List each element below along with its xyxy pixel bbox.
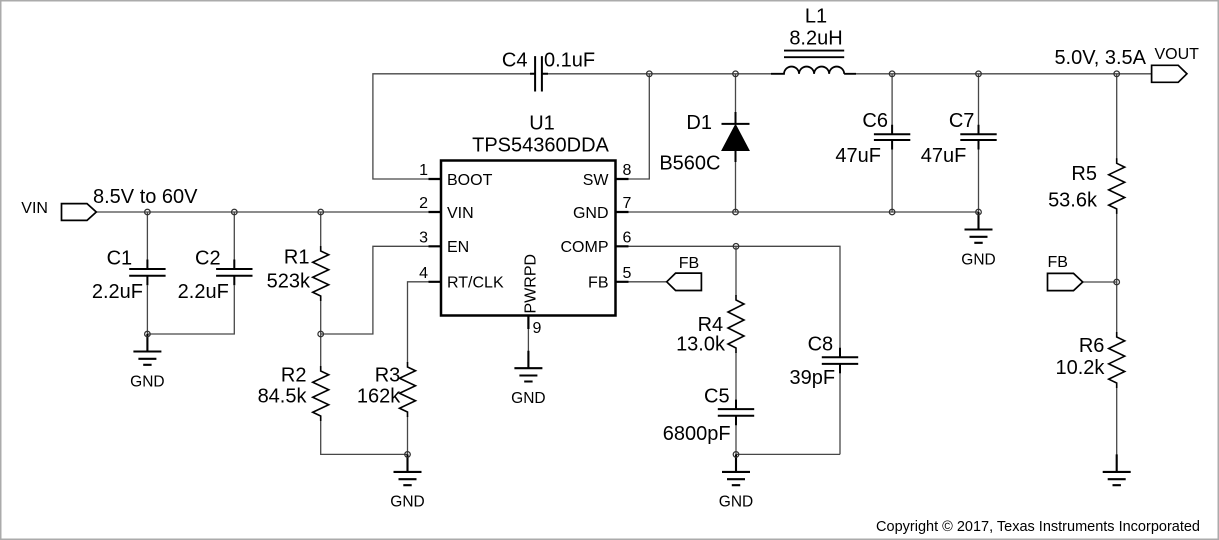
svg-text:53.6k: 53.6k xyxy=(1048,190,1098,212)
wire PWRPD pin9 to ground xyxy=(527,316,529,352)
svg-text:GND: GND xyxy=(573,205,609,222)
svg-text:TPS54360DDA: TPS54360DDA xyxy=(472,135,609,157)
svg-text:R1: R1 xyxy=(284,246,310,268)
svg-text:84.5k: 84.5k xyxy=(258,385,308,407)
D1 value label xyxy=(659,153,720,175)
svg-text:SW: SW xyxy=(583,172,610,189)
ground at R6 xyxy=(1103,454,1131,485)
node R1-R2-EN xyxy=(318,331,324,337)
R6 reference label xyxy=(1079,335,1105,357)
R2 value label xyxy=(258,385,308,407)
svg-text:3: 3 xyxy=(419,229,428,246)
VIN net label xyxy=(21,200,48,217)
wire R6 branch to ground xyxy=(1116,282,1118,455)
svg-text:FB: FB xyxy=(679,255,699,272)
node VIN-C1 xyxy=(145,209,151,215)
svg-text:C6: C6 xyxy=(862,110,888,132)
R2 reference label xyxy=(281,365,307,387)
svg-text:VIN: VIN xyxy=(447,205,474,222)
C7 reference label xyxy=(949,110,975,132)
C6 value label xyxy=(835,145,881,167)
R5 reference label xyxy=(1071,163,1097,185)
resistor R6 xyxy=(1109,332,1125,388)
svg-text:8.5V to 60V: 8.5V to 60V xyxy=(93,186,198,208)
node rail-C6 xyxy=(889,71,895,77)
svg-text:7: 7 xyxy=(623,195,632,212)
C1 reference label xyxy=(107,247,133,269)
C4 reference label xyxy=(502,50,528,72)
diode D1 xyxy=(722,112,750,162)
wire C1 branch xyxy=(146,212,148,334)
resistor R2 xyxy=(313,366,329,421)
resistor R3 xyxy=(400,362,416,417)
wire C6 branch xyxy=(891,74,893,212)
wire RT/CLK to R3 xyxy=(408,282,442,455)
svg-text:8.2uH: 8.2uH xyxy=(789,28,842,50)
wire VIN rail xyxy=(96,211,441,213)
copyright notice xyxy=(876,519,1200,535)
svg-text:BOOT: BOOT xyxy=(447,172,493,189)
capacitor C1 xyxy=(129,260,165,286)
wire SW stub up xyxy=(616,74,650,179)
op-amp U1 TPS54360DDA box xyxy=(429,161,629,330)
svg-text:PWRPD: PWRPD xyxy=(523,254,540,314)
ground at C1/C2 xyxy=(130,334,164,390)
svg-text:VIN: VIN xyxy=(21,200,48,217)
R4 value label xyxy=(676,334,726,356)
wire R1 branch xyxy=(320,212,322,334)
svg-text:R6: R6 xyxy=(1079,335,1105,357)
svg-text:6800pF: 6800pF xyxy=(663,423,731,445)
svg-text:RT/CLK: RT/CLK xyxy=(447,275,504,292)
svg-text:0.1uF: 0.1uF xyxy=(544,50,595,72)
svg-text:EN: EN xyxy=(447,239,469,256)
C2 value label xyxy=(178,281,229,303)
svg-text:FB: FB xyxy=(1048,254,1068,271)
node D1-cathode xyxy=(733,71,739,77)
svg-text:8: 8 xyxy=(623,162,632,179)
node C7-GND xyxy=(976,209,982,215)
ground at pin9 xyxy=(511,351,545,407)
node rail-VOUT xyxy=(1114,71,1120,77)
node C6-GND xyxy=(889,209,895,215)
R4 reference label xyxy=(698,314,724,336)
capacitor C8 xyxy=(822,348,858,374)
C5 value label xyxy=(663,423,731,445)
svg-text:4: 4 xyxy=(419,265,428,282)
svg-text:1: 1 xyxy=(419,162,428,179)
U1 pin names xyxy=(447,172,609,314)
svg-text:5.0V, 3.5A: 5.0V, 3.5A xyxy=(1054,47,1146,69)
capacitor C2 xyxy=(216,260,252,286)
svg-text:9: 9 xyxy=(533,320,542,337)
VOUT net label xyxy=(1155,46,1200,63)
svg-text:C2: C2 xyxy=(195,247,221,269)
FB connector at pin 5 xyxy=(667,273,702,290)
wire C7 branch xyxy=(978,74,980,212)
svg-text:C4: C4 xyxy=(502,50,528,72)
svg-text:2.2uF: 2.2uF xyxy=(178,281,229,303)
wire R2 branch xyxy=(321,334,408,454)
svg-text:47uF: 47uF xyxy=(835,145,881,167)
svg-text:FB: FB xyxy=(588,275,608,292)
R1 value label xyxy=(267,270,311,292)
R1 reference label xyxy=(284,246,310,268)
wire EN to R1/R2 node xyxy=(321,246,441,334)
inductor L1 xyxy=(771,51,856,74)
svg-text:R3: R3 xyxy=(375,365,401,387)
C4 value label xyxy=(544,50,595,72)
wire R5 branch xyxy=(1116,74,1118,282)
svg-text:2: 2 xyxy=(419,195,428,212)
svg-text:Copyright © 2017, Texas Instru: Copyright © 2017, Texas Instruments Inco… xyxy=(876,519,1200,535)
FB right net label xyxy=(1048,254,1068,271)
svg-text:6: 6 xyxy=(623,229,632,246)
node SW-rail xyxy=(647,71,653,77)
node FB-divider xyxy=(1114,279,1120,285)
node D1-anode-GND xyxy=(733,209,739,215)
wire D1 branch xyxy=(735,74,737,212)
node R2-R3-GND xyxy=(405,452,411,458)
resistor R4 xyxy=(728,295,744,353)
C8 reference label xyxy=(808,334,834,356)
ground at C5/C8 xyxy=(719,454,753,510)
wire FB flag to divider xyxy=(1083,281,1117,283)
svg-text:523k: 523k xyxy=(267,270,311,292)
wire BOOT to C4 xyxy=(373,74,530,179)
wire VOUT top rail xyxy=(844,73,1151,75)
resistor R1 xyxy=(313,246,329,301)
capacitor C4 xyxy=(530,56,548,91)
L1 value label xyxy=(789,28,842,50)
D1 reference label xyxy=(686,112,712,134)
node VIN-R1 xyxy=(318,209,324,215)
svg-text:R5: R5 xyxy=(1071,163,1097,185)
ground at R2/R3 xyxy=(390,454,424,510)
svg-text:C5: C5 xyxy=(704,386,730,408)
node COMP-R4 xyxy=(733,244,739,250)
wire SW top rail to L1 xyxy=(548,73,784,75)
capacitor C5 xyxy=(718,400,754,426)
VOUT connector xyxy=(1152,65,1187,82)
node rail-C7 xyxy=(976,71,982,77)
svg-text:GND: GND xyxy=(719,494,753,511)
U1 pin numbers xyxy=(419,162,631,337)
ground at C7 xyxy=(961,212,995,268)
svg-text:B560C: B560C xyxy=(659,153,720,175)
svg-text:C7: C7 xyxy=(949,110,975,132)
wire FB pin5 stub xyxy=(616,281,667,283)
R6 value label xyxy=(1055,357,1105,379)
FB connector right xyxy=(1048,273,1083,290)
VIN input connector xyxy=(62,204,97,221)
L1 reference label xyxy=(805,6,827,28)
svg-text:U1: U1 xyxy=(529,113,555,135)
C5 reference label xyxy=(704,386,730,408)
svg-text:COMP: COMP xyxy=(561,239,609,256)
capacitor C6 xyxy=(874,125,910,150)
node VIN-C2 xyxy=(232,209,238,215)
svg-text:39pF: 39pF xyxy=(790,367,836,389)
C2 reference label xyxy=(195,247,221,269)
resistor R5 xyxy=(1109,158,1125,214)
svg-text:VOUT: VOUT xyxy=(1155,46,1200,63)
svg-text:5: 5 xyxy=(623,265,632,282)
svg-text:10.2k: 10.2k xyxy=(1055,357,1105,379)
svg-text:C8: C8 xyxy=(808,334,834,356)
output voltage label xyxy=(1054,47,1146,69)
node C5-C8-GND xyxy=(733,452,739,458)
C6 reference label xyxy=(862,110,888,132)
node C1-C2-GND xyxy=(145,331,151,337)
input voltage label xyxy=(93,186,198,208)
wire power GND rail xyxy=(616,211,979,213)
wire C8 bottom return xyxy=(736,373,840,454)
svg-text:47uF: 47uF xyxy=(921,145,967,167)
C7 value label xyxy=(921,145,967,167)
FB pin5 net label xyxy=(679,255,699,272)
svg-text:L1: L1 xyxy=(805,6,827,28)
svg-text:2.2uF: 2.2uF xyxy=(92,281,143,303)
svg-text:C1: C1 xyxy=(107,247,133,269)
C8 value label xyxy=(790,367,836,389)
svg-text:GND: GND xyxy=(390,494,424,511)
U1 part number label xyxy=(472,135,609,157)
wire COMP to C8 xyxy=(616,246,841,348)
capacitor C7 xyxy=(960,125,996,150)
wire R4-C5 branch xyxy=(735,246,737,454)
svg-text:R2: R2 xyxy=(281,365,307,387)
R5 value label xyxy=(1048,190,1098,212)
svg-text:GND: GND xyxy=(130,373,164,390)
svg-text:GND: GND xyxy=(511,390,545,407)
svg-text:162k: 162k xyxy=(357,385,401,407)
R3 value label xyxy=(357,385,401,407)
svg-text:GND: GND xyxy=(961,251,995,268)
U1 reference label xyxy=(529,113,555,135)
wire C2 branch xyxy=(147,212,234,334)
C1 value label xyxy=(92,281,143,303)
R3 reference label xyxy=(375,365,401,387)
svg-text:13.0k: 13.0k xyxy=(676,334,726,356)
svg-text:D1: D1 xyxy=(686,112,712,134)
